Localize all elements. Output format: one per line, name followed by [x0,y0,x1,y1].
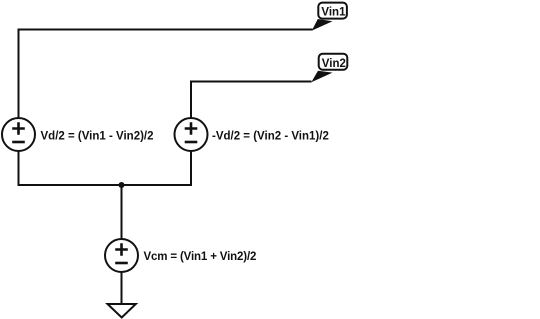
wire Vin2 vertical drop to V2 [190,81,192,118]
junction dot [119,182,125,188]
ground [108,304,136,318]
wire Vin2 horizontal [190,81,312,83]
node Vin1 flag [312,3,347,31]
wire V2 bottom drop [190,152,192,186]
value label Vcm = (Vin1 + Vin2)/2 [144,251,257,263]
wire junction to Vcm [121,185,123,239]
svg-text:Vd/2 = (Vin1 - Vin2)/2: Vd/2 = (Vin1 - Vin2)/2 [41,131,154,143]
svg-text:Vin1: Vin1 [321,7,346,19]
voltage source V1 (Vd/2) [2,118,35,151]
value label -Vd/2 = (Vin2 - Vin1)/2 [212,131,329,143]
wire top-left vertical (Vin1 net) [18,30,20,118]
svg-text:Vcm = (Vin1 + Vin2)/2: Vcm = (Vin1 + Vin2)/2 [144,251,257,263]
svg-text:-Vd/2 = (Vin2 - Vin1)/2: -Vd/2 = (Vin2 - Vin1)/2 [212,131,329,143]
value label Vd/2 = (Vin1 - Vin2)/2 [41,131,154,143]
node Vin2 flag [311,54,347,83]
wire bottom bus horizontal [18,184,193,186]
svg-text:Vin2: Vin2 [322,58,346,70]
wire Vcm to ground [121,273,123,305]
wire top horizontal to Vin1 flag [18,29,313,31]
voltage source V2 (-Vd/2) [175,118,208,151]
wire V1 bottom drop [18,152,20,186]
voltage source V3 (Vcm) [105,239,138,272]
